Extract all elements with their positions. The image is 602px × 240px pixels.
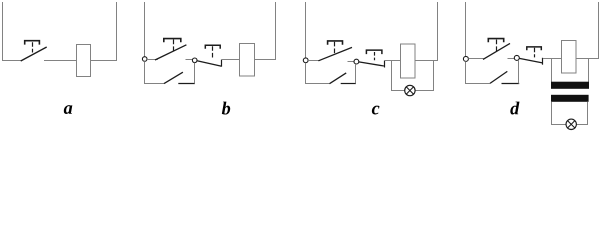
- switch SB2-b stop tick: [221, 60, 223, 67]
- contact K1-b blade: [164, 72, 183, 83]
- wire lamp branch left c: [392, 61, 405, 91]
- coil K-b: [240, 44, 255, 77]
- switch SB1-b actuator bar: [164, 39, 181, 43]
- wire yoke left side d: [551, 59, 553, 83]
- wire left rail d: [465, 2, 467, 56]
- wire hold-branch left c: [306, 63, 330, 84]
- coil K-a: [77, 45, 91, 77]
- node b2: [192, 58, 197, 63]
- switch SB1-d actuator dashed link: [496, 40, 498, 52]
- wire yoke right side d: [588, 59, 590, 83]
- wire left rail b: [144, 2, 146, 57]
- switch SB2-b blade (NC): [197, 61, 222, 66]
- node c1: [303, 58, 308, 63]
- wire coil to right rail c: [415, 2, 438, 61]
- switch SB1-b actuator dashed link: [173, 40, 175, 52]
- switch SB2-c actuator dashed link: [374, 52, 376, 60]
- core bar (fixed) d: [551, 82, 589, 89]
- wire lead c start: [308, 60, 319, 62]
- wire left rail a: [3, 2, 21, 61]
- contact K1-c right lead: [341, 83, 356, 85]
- switch S-a actuator dashed link: [32, 42, 34, 52]
- switch SB1-d actuator bar: [488, 39, 503, 43]
- wire hold-branch right c: [355, 64, 357, 84]
- wire lead b mid: [186, 59, 193, 61]
- switch SB1-c blade: [318, 47, 352, 60]
- switch SB1-b blade: [155, 45, 186, 60]
- node b1: [142, 57, 147, 62]
- wire lead to coil b: [222, 59, 240, 61]
- wire hold-branch right b: [194, 63, 196, 84]
- wire lead to coil c: [385, 60, 401, 62]
- wire lead d start: [468, 58, 483, 60]
- switch SB2-c actuator bar: [366, 50, 382, 54]
- switch SB2-c blade (NC): [359, 62, 384, 66]
- switch SB2-d actuator dashed link: [534, 48, 536, 58]
- wire hold-branch right d: [518, 60, 520, 83]
- wire lead c mid: [348, 61, 355, 63]
- node d1: [463, 56, 468, 61]
- wire lamp branch right c: [415, 61, 433, 91]
- label c: [372, 106, 380, 115]
- wire right lead a: [44, 60, 77, 62]
- wire coil to right rail b: [255, 2, 276, 60]
- coil K-d: [562, 41, 577, 74]
- switch S-a actuator bar: [25, 41, 40, 45]
- switch S-a blade: [21, 47, 47, 61]
- armature bar (moving) d: [551, 95, 589, 102]
- wire left rail c: [305, 2, 307, 58]
- wire hold-branch left d: [466, 61, 491, 83]
- switch SB2-d blade (NC): [519, 58, 542, 63]
- label d: [510, 102, 519, 115]
- node c2: [354, 59, 359, 64]
- switch SB1-c actuator dashed link: [334, 42, 336, 53]
- wire lead d mid: [508, 58, 515, 60]
- wire hold-branch left b: [145, 61, 165, 83]
- wire lead b start: [147, 59, 158, 61]
- wire coil to right rail d: [576, 2, 599, 59]
- switch SB1-c actuator bar: [328, 41, 343, 45]
- lamp L-d: [566, 119, 576, 129]
- label a: [64, 105, 72, 114]
- contact K1-c blade: [330, 73, 347, 84]
- switch SB2-d actuator bar: [527, 47, 542, 50]
- contact K1-d right lead: [502, 83, 520, 85]
- switch SB2-c stop tick: [384, 61, 386, 68]
- wire lead to coil d: [543, 58, 562, 60]
- switch SB2-d stop tick: [542, 58, 544, 65]
- wire lamp frame right d: [576, 102, 587, 125]
- switch SB2-b actuator dashed link: [212, 46, 214, 57]
- label b: [222, 102, 230, 115]
- node d2: [514, 55, 519, 60]
- switch SB1-d blade: [483, 43, 510, 59]
- lamp L-c: [405, 85, 415, 95]
- switch SB2-b actuator bar: [205, 45, 220, 49]
- wire lamp frame left d: [552, 102, 567, 125]
- contact K1-d blade: [490, 71, 507, 83]
- coil K-c: [401, 44, 416, 78]
- wire coil to right rail a: [91, 2, 117, 61]
- contact K1-b right lead: [178, 83, 195, 85]
